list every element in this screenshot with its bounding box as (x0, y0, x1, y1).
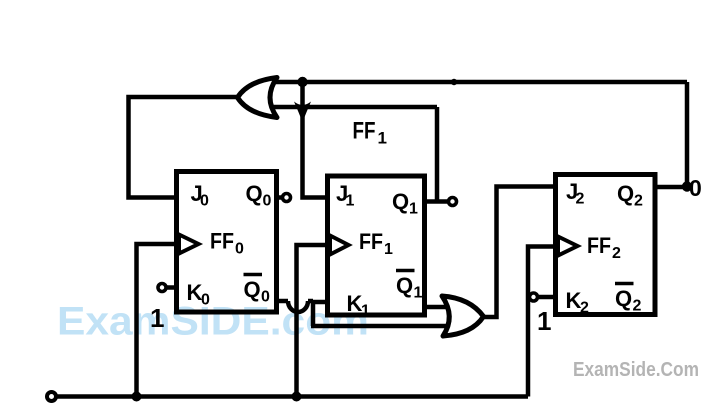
svg-text:0: 0 (200, 193, 209, 210)
svg-text:0: 0 (235, 241, 244, 258)
svg-text:Q: Q (246, 181, 263, 206)
wire: G2 lower input run under FF1 (311, 324, 446, 329)
OR gate G1 (left-pointing, top) (238, 78, 278, 118)
svg-text:ExamSIDE.com: ExamSIDE.com (57, 300, 369, 344)
clock triangle FF1 (330, 236, 349, 255)
svg-text:2: 2 (633, 298, 642, 315)
svg-text:1: 1 (378, 129, 387, 148)
OR gate G2 (right-pointing, bottom) (442, 296, 484, 336)
svg-text:Q: Q (396, 273, 413, 298)
terminal: clock bus left end connector (47, 392, 56, 401)
svg-text:0: 0 (261, 289, 270, 306)
svg-text:FF: FF (210, 229, 234, 254)
wire: G1 lower input from Q1 riser (272, 105, 437, 110)
wire: K0 input stub from terminal (166, 285, 178, 290)
wire: Q0bar output segment before hop (275, 299, 288, 304)
svg-text:1: 1 (414, 285, 423, 302)
svg-text:1: 1 (150, 303, 164, 333)
terminal: K2 input connector (530, 293, 538, 301)
svg-text:2: 2 (576, 191, 585, 208)
svg-text:0: 0 (263, 193, 272, 210)
terminal: Q1 output connector (449, 198, 457, 206)
clock triangle FF2 (558, 237, 578, 256)
wire: bottom clock bus (56, 394, 528, 399)
wire: junction into K1 input (311, 300, 329, 305)
svg-text:2: 2 (612, 245, 621, 262)
arrowhead: down arrow on J1 drop wire (294, 102, 311, 123)
junction dot: clock bus to FF0 (132, 392, 142, 402)
svg-text:Q: Q (615, 286, 632, 311)
svg-text:2: 2 (580, 300, 589, 317)
terminal: Q0 output connector (283, 194, 291, 202)
wire: K2 input stub from terminal (537, 295, 556, 300)
flip-flop FF1 box (328, 176, 425, 315)
svg-text:1: 1 (361, 303, 370, 320)
svg-text:FF: FF (353, 118, 376, 145)
svg-text:2: 2 (634, 193, 643, 210)
wire: Q0 output stub (275, 195, 282, 200)
svg-text:0: 0 (689, 175, 702, 201)
svg-text:ExamSide.Com: ExamSide.Com (573, 359, 699, 381)
wire: OR gate G1 output to J0 (left feedback loop) (129, 97, 241, 198)
junction dot: top net to J1 drop (297, 77, 307, 87)
svg-text:Q: Q (392, 189, 409, 214)
svg-text:1: 1 (384, 241, 393, 258)
junction dot: small dot on top net (451, 79, 457, 85)
wire: drop from Q0bar junction to G2 lower input level (311, 300, 316, 326)
wire: FF0 clock input from bottom clock bus (137, 244, 179, 397)
junction dot: clock bus to FF1 (292, 392, 302, 402)
wire: Q1bar output to G2 upper input (423, 305, 446, 310)
wire: FF2 clock input from bottom clock bus (528, 247, 556, 397)
svg-text:FF: FF (359, 229, 383, 254)
wire: Q2 output to right corner (653, 185, 687, 190)
wire hop: Q0bar line hops the FF1 clock riser (288, 301, 308, 312)
wire: FF1 clock input from bottom clock bus (297, 245, 330, 397)
svg-text:FF: FF (587, 233, 611, 258)
wire: Q0bar segment after hop to junction (308, 299, 313, 304)
wire: Q1 riser up to G1 lower input (435, 107, 440, 202)
junction dot: Q2 corner node 0 (682, 181, 692, 191)
wire: drop from top net junction down to J1 (303, 82, 329, 198)
svg-text:Q: Q (617, 181, 634, 206)
wire: right drop from top net to Q2 (685, 82, 690, 187)
wire: G2 output up to J2 input (482, 187, 556, 318)
svg-text:Q: Q (244, 277, 261, 302)
wire: Q1 output stub to terminal (423, 199, 448, 204)
svg-text:1: 1 (537, 306, 551, 336)
wire: top feedback net from G1 upper input to right side (274, 80, 687, 85)
svg-text:1: 1 (346, 193, 355, 210)
clock triangle FF0 (179, 235, 199, 254)
flip-flop FF2 box (556, 175, 656, 315)
svg-text:1: 1 (409, 201, 418, 218)
flip-flop FF0 box (177, 172, 277, 313)
terminal: K0 input connector (158, 284, 166, 292)
svg-text:0: 0 (201, 292, 210, 309)
